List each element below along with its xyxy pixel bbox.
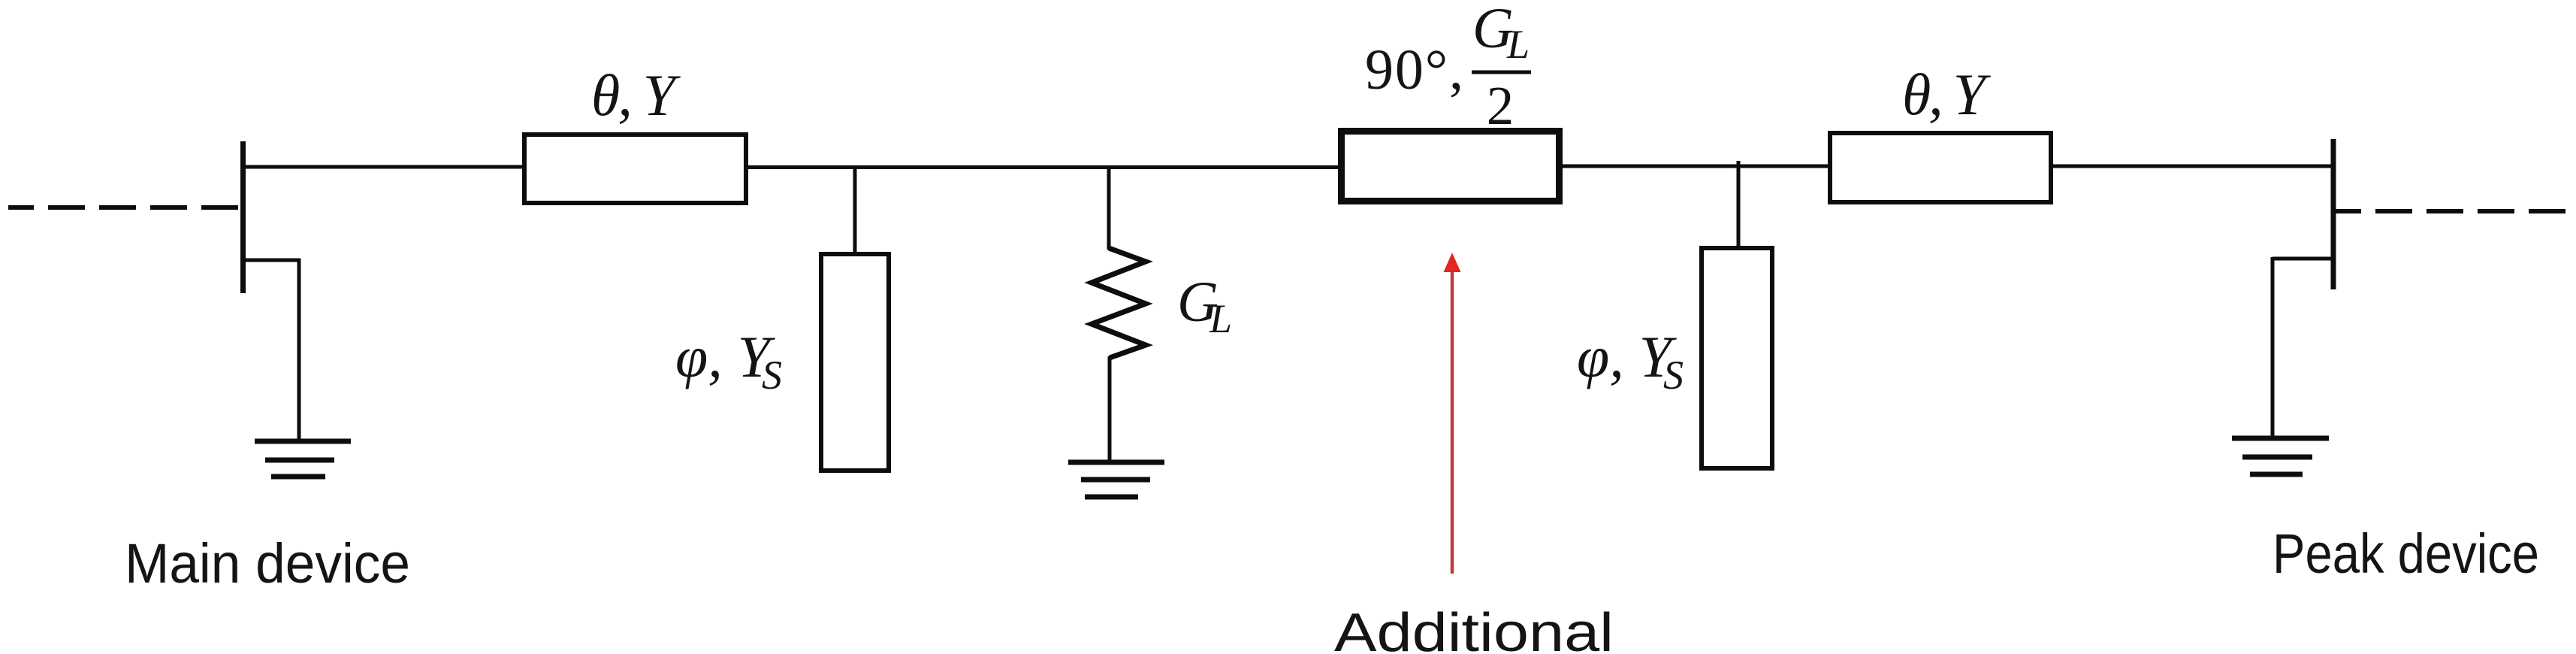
transistor Q1 (Main device) bar: [240, 141, 246, 293]
ground (Peak device): [2232, 438, 2329, 474]
svg-text:2: 2: [1487, 75, 1514, 136]
label phi, YS (ST1): [675, 324, 782, 398]
label phi, YS (ST2): [1577, 324, 1684, 398]
label GL (resistor value): [1177, 271, 1232, 341]
svg-text:L: L: [1506, 22, 1530, 67]
svg-text:L: L: [1209, 296, 1232, 341]
transmission line TL1 (theta, Y): [524, 135, 746, 203]
wire: Q1 source lead: [241, 259, 300, 262]
node C: junction down to stub ST2: [1737, 161, 1741, 248]
transmission line TL3 (90deg, GL/2): [1342, 132, 1560, 201]
svg-text:Main device: Main device: [125, 532, 410, 595]
wire: resistor GL to ground: [1108, 356, 1112, 462]
stub ST1 (phi, YS): [821, 254, 889, 471]
wire: dashed gate lead of main device: [8, 205, 240, 210]
label 90deg, GL/2 (TL3): [1365, 0, 1531, 136]
svg-text:Peak device: Peak device: [2272, 522, 2539, 585]
svg-text:θ, Y: θ, Y: [591, 62, 681, 128]
transmission line TL2 (theta, Y): [1830, 133, 2051, 202]
wire: Q1 source down to ground: [297, 259, 301, 441]
svg-text:θ, Y: θ, Y: [1902, 62, 1992, 127]
wire: Q2 source down to ground: [2271, 257, 2275, 438]
node A: junction down to stub ST1: [853, 167, 857, 254]
ground (GL): [1068, 462, 1164, 497]
wire: TL1 to TL3: [746, 165, 1341, 169]
svg-text:φ, Y: φ, Y: [675, 324, 776, 389]
resistor GL zigzag: [1092, 248, 1146, 358]
svg-text:S: S: [762, 353, 782, 398]
wire: dashed gate lead of peak device: [2336, 209, 2569, 213]
wire: Q2 source lead: [2272, 257, 2335, 261]
ground (Main device): [255, 441, 351, 477]
svg-text:φ, Y: φ, Y: [1577, 324, 1678, 389]
wire: TL2 to Q2 drain: [2051, 165, 2335, 168]
wire: node B down to resistor GL: [1107, 167, 1111, 250]
transistor Q2 (Peak device) bar: [2331, 139, 2336, 289]
stub ST2 (phi, YS): [1702, 248, 1772, 468]
wire: Q1 drain to TL1: [241, 165, 524, 169]
wire: TL3 to TL2: [1559, 165, 1830, 168]
annotation arrow (Additional): [1444, 253, 1461, 574]
svg-text:S: S: [1663, 353, 1684, 398]
svg-text:90°,: 90°,: [1365, 38, 1463, 101]
svg-text:Additional: Additional: [1334, 603, 1614, 654]
